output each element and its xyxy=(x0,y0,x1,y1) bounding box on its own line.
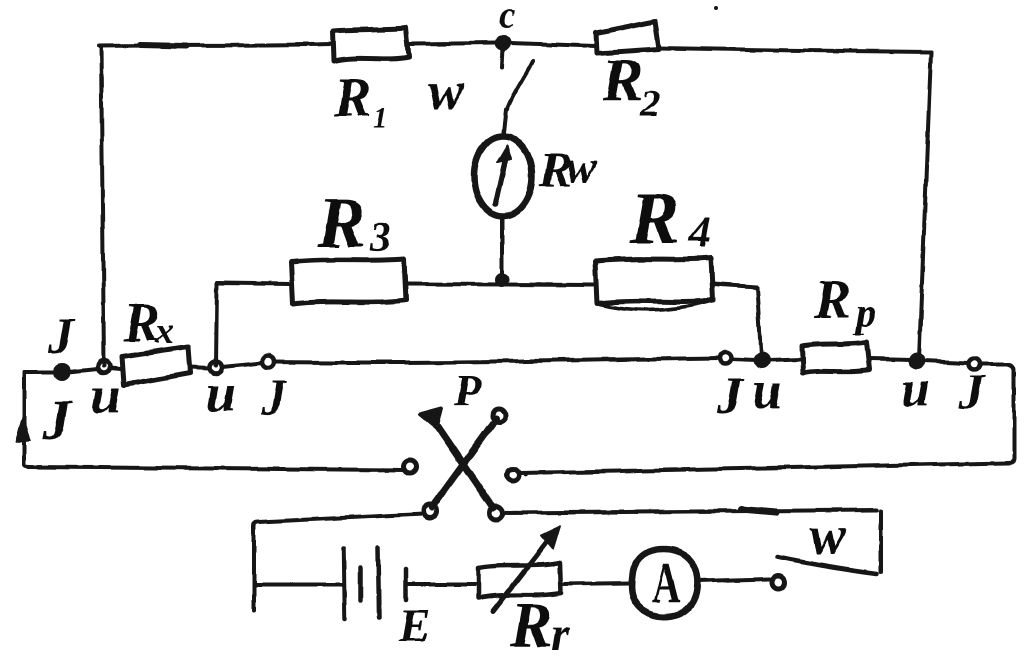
svg-text:w: w xyxy=(809,505,847,567)
switch P blade 2 (thick X) xyxy=(432,419,496,507)
label Rp xyxy=(813,269,876,335)
svg-text:J: J xyxy=(41,388,73,453)
terminal ring switch w xyxy=(773,576,786,589)
wire left vertical xyxy=(101,46,104,366)
wire blade to galvanometer xyxy=(503,110,506,137)
label u (R3 drop) xyxy=(206,363,236,423)
svg-text:r: r xyxy=(551,608,571,656)
switch w blade xyxy=(777,557,877,574)
label R2 xyxy=(601,47,660,125)
wire middle row center xyxy=(406,284,593,285)
svg-text:u: u xyxy=(206,363,236,423)
stray ink dot top right xyxy=(714,6,718,10)
svg-text:4: 4 xyxy=(687,206,711,257)
svg-text:P: P xyxy=(453,366,482,415)
wire bus right end corner going down xyxy=(980,364,1014,458)
terminal u filled (right vertical) xyxy=(911,355,924,368)
label J (right) xyxy=(716,368,745,425)
switch P bottom-right ring xyxy=(490,507,503,520)
svg-text:u: u xyxy=(901,361,930,418)
wire bus far-left end + left edge down xyxy=(24,370,56,374)
terminal J ring (right) xyxy=(720,352,732,364)
wire bus xyxy=(222,363,262,367)
label J (far right) xyxy=(958,363,986,419)
terminal J ring xyxy=(262,356,274,368)
label RW xyxy=(538,141,597,197)
switch P blade 1 (thick X) xyxy=(433,420,493,508)
label J xyxy=(260,369,288,425)
switch P pivot filled top-left xyxy=(420,408,442,428)
label A xyxy=(652,551,681,615)
terminal J filled (left) xyxy=(56,366,69,379)
battery plate long 2 xyxy=(378,547,379,617)
resistor R3 xyxy=(291,259,406,304)
switch blade W (galvanometer branch) xyxy=(502,48,503,67)
resistor Rp xyxy=(802,342,869,373)
battery plate short 2 xyxy=(404,569,409,600)
svg-text:1: 1 xyxy=(373,101,388,134)
label E xyxy=(398,600,430,652)
wire Rx to u terminal xyxy=(190,367,210,368)
wire Rp to u xyxy=(869,359,911,360)
svg-text:R: R xyxy=(317,183,366,263)
wire top rail right segment xyxy=(658,48,931,52)
terminal u ring (left) xyxy=(98,361,110,373)
wire bus dot to u terminal xyxy=(68,369,98,372)
svg-text:J: J xyxy=(716,368,745,425)
svg-text:w: w xyxy=(566,141,597,192)
svg-text:u: u xyxy=(752,360,782,420)
svg-text:2: 2 xyxy=(640,83,660,125)
label P xyxy=(453,366,482,415)
wire bus long middle xyxy=(274,358,720,363)
terminal u ring (R3 drop) xyxy=(210,361,222,373)
wire galvanometer to middle row xyxy=(500,215,504,281)
label R3 xyxy=(317,183,391,263)
terminal ring left of switch P xyxy=(404,461,417,474)
wire bus xyxy=(923,361,968,363)
arrow up on left edge xyxy=(16,416,30,442)
svg-text:3: 3 xyxy=(369,215,391,261)
wire into Rx xyxy=(110,368,121,369)
label J below-left xyxy=(41,388,73,453)
resistor R1 xyxy=(333,28,409,61)
ammeter A xyxy=(632,549,698,617)
wire bus xyxy=(732,359,756,360)
wire top rail left segment xyxy=(99,44,333,46)
wire top rail mid segment xyxy=(409,43,497,44)
svg-text:x: x xyxy=(154,310,174,352)
label Rr xyxy=(509,589,571,656)
wire battery loop top right xyxy=(502,510,877,513)
label J above-left xyxy=(47,308,76,365)
svg-text:R: R xyxy=(813,269,851,331)
svg-text:R: R xyxy=(601,47,643,115)
wire right edge of battery loop xyxy=(879,511,883,572)
label R4 xyxy=(629,178,711,260)
ink dot near switch P right terminal xyxy=(524,472,529,477)
battery plate long 1 xyxy=(344,549,345,619)
label u (left) xyxy=(91,365,121,425)
switch P bottom-left ring xyxy=(424,505,437,518)
wire rheostat to ammeter xyxy=(562,583,631,584)
wire right vertical xyxy=(919,52,931,359)
svg-text:A: A xyxy=(652,551,681,615)
label Rx xyxy=(122,292,174,354)
terminal ring right of switch P xyxy=(507,469,519,481)
svg-text:J: J xyxy=(958,363,986,419)
svg-text:R: R xyxy=(509,589,553,656)
wire ammeter to switch w xyxy=(697,579,770,581)
wire middle row right + vertical drop xyxy=(713,284,757,287)
resistor R4 xyxy=(595,258,713,303)
label W top xyxy=(428,61,465,121)
svg-text:w: w xyxy=(428,61,465,121)
svg-text:u: u xyxy=(91,365,121,425)
wire right-middle horizontal to switch xyxy=(520,458,1014,473)
svg-text:p: p xyxy=(853,290,876,335)
svg-text:c: c xyxy=(499,0,516,36)
underline flourish below R4 xyxy=(599,301,711,310)
battery plate short 1 xyxy=(359,568,364,600)
label R1 xyxy=(333,67,388,134)
svg-text:E: E xyxy=(398,600,430,652)
wire top rail between c and R2 xyxy=(510,43,595,46)
resistor R2 xyxy=(596,21,659,53)
label u (right vertical) xyxy=(901,361,930,418)
terminal J ring (far right) xyxy=(969,359,980,370)
resistor Rx xyxy=(122,347,190,385)
rheostat arrow xyxy=(493,535,552,611)
wire battery loop bottom to battery xyxy=(254,583,342,587)
label c xyxy=(499,0,516,36)
node c xyxy=(497,37,509,49)
wire battery to rheostat xyxy=(408,582,475,586)
svg-text:R: R xyxy=(333,67,371,129)
junction dot under RW xyxy=(497,275,507,285)
rheostat Rr box xyxy=(478,563,561,598)
wire battery loop top-left slant xyxy=(254,514,424,610)
terminal u filled (R4 drop) xyxy=(756,354,769,367)
galvanometer RW xyxy=(474,136,532,216)
svg-text:R: R xyxy=(629,178,679,260)
wire into Rp xyxy=(768,359,801,360)
switch P top-right ring xyxy=(493,410,506,423)
thick overdraw on top rail xyxy=(140,45,186,46)
needle of RW xyxy=(495,155,506,204)
label w bottom xyxy=(809,505,847,567)
svg-text:J: J xyxy=(47,308,76,365)
svg-text:J: J xyxy=(260,369,288,425)
wire bottom-left horizontal to switch xyxy=(24,465,403,470)
wire middle row left + vertical drop xyxy=(217,283,290,284)
label u (R4 drop) xyxy=(752,360,782,420)
